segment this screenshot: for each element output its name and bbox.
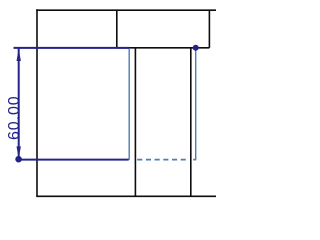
sketch line: bottom navy horizontal — [19, 159, 129, 161]
edge: mid horizontal shelf — [117, 47, 210, 49]
edge: upper middle vertical — [116, 10, 118, 48]
edge: bottom horizontal — [36, 195, 216, 197]
edge: lower middle vertical — [134, 48, 136, 197]
dimension arrow down — [17, 146, 21, 158]
sketch endpoint dot left — [15, 156, 22, 163]
sketch line: dashed horizontal blue — [137, 159, 189, 161]
sketch stub near right blue vertical — [193, 159, 196, 161]
edge: left vertical — [36, 9, 38, 196]
sketch line: left vertical blue — [128, 48, 130, 160]
edge: lower right vertical — [190, 48, 192, 197]
edge: top horizontal — [36, 9, 216, 11]
edge: upper right vertical — [208, 10, 210, 48]
dimension line vertical — [18, 49, 20, 160]
dimension arrow up — [17, 49, 21, 61]
svg-text:60.00: 60.00 — [6, 95, 23, 140]
sketch endpoint dot right — [193, 45, 199, 51]
sketch line: top navy horizontal — [14, 47, 130, 49]
sketch line: right vertical blue — [195, 48, 197, 160]
